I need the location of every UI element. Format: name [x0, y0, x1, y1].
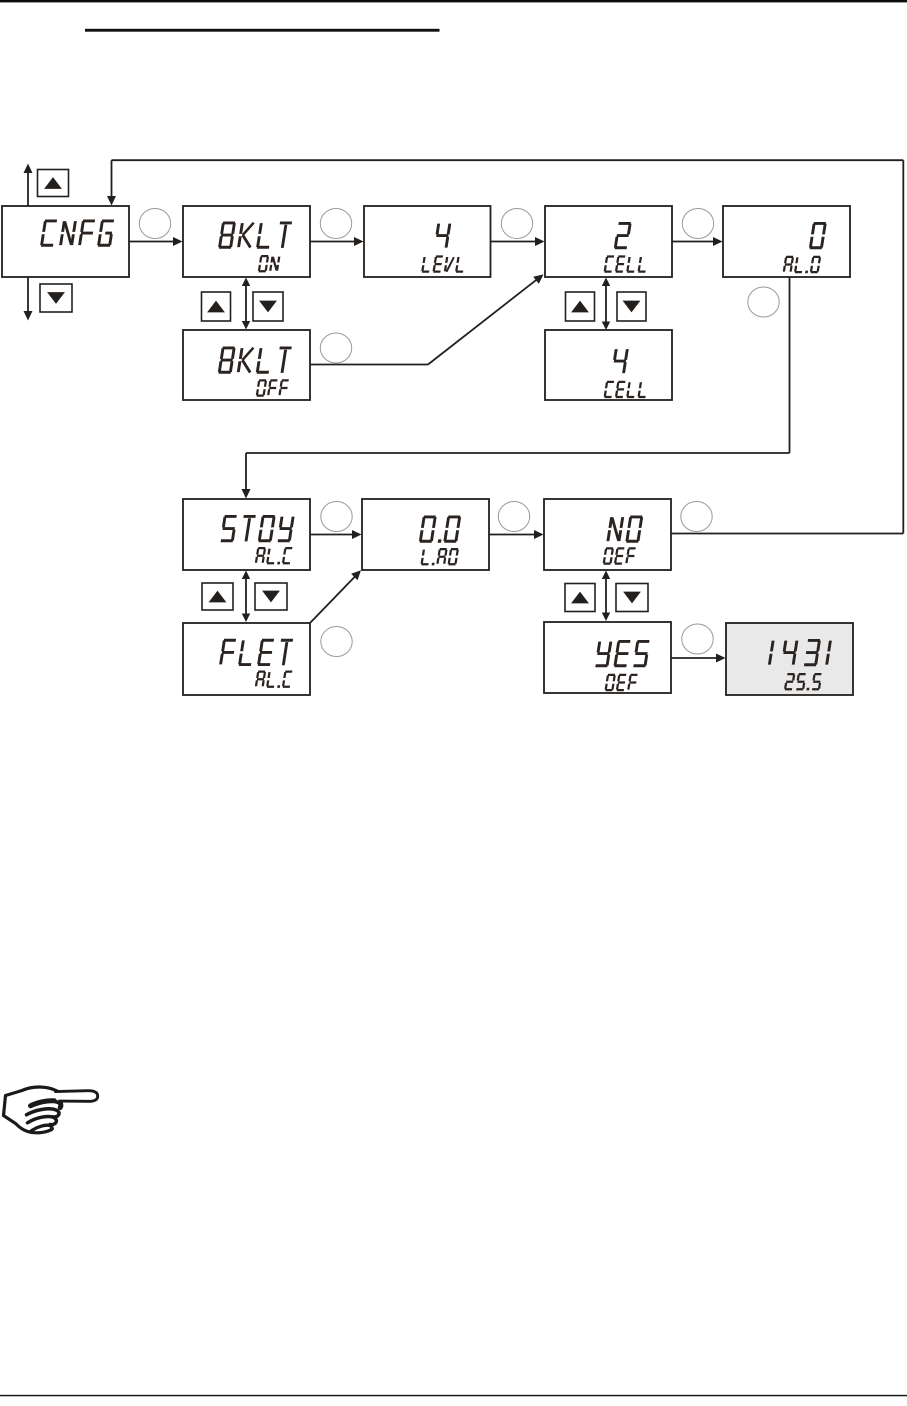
wire: main loop top horizontal [112, 159, 904, 161]
lcd text DEF (yes) [606, 675, 638, 690]
key circle FLET [321, 627, 352, 657]
wire: AL.D down vertical [789, 277, 791, 453]
key circle below AL.D [748, 287, 779, 317]
arrow: L.AD to NO [489, 534, 536, 536]
key circle CELL-ALD [682, 209, 713, 239]
display box NO DEF [544, 499, 671, 570]
lcd text CELL (4) [605, 382, 648, 397]
lcd text OFF [257, 380, 289, 395]
display box BKLT ON [183, 206, 310, 277]
key circle LAD-NO [498, 502, 529, 532]
arrow: loop into CNFG top [111, 160, 113, 198]
display box YES DEF [544, 622, 671, 693]
lcd text AL.D [784, 257, 821, 273]
lcd text NO [608, 517, 642, 541]
wire: NO box exit to right vertical [671, 533, 903, 535]
display box 2 CELL [545, 206, 672, 277]
lcd text BKLT (off) [219, 348, 292, 373]
page bottom border line [0, 1395, 907, 1397]
display box 0.0 L.AD [362, 499, 489, 570]
display box 4 LEVL [364, 206, 491, 277]
lcd text 0 (al.d) [810, 223, 826, 247]
arrow: CNFG box down-exit [27, 277, 29, 312]
lcd text DEF (no) [604, 548, 636, 563]
lcd text 1431 [769, 640, 830, 664]
arrow: CNFG box up-exit [27, 172, 29, 206]
key circle YES [682, 624, 713, 654]
lcd text CNFG [41, 221, 114, 245]
lcd text BKLT (on) [219, 223, 292, 248]
BKLT up key button [202, 292, 231, 321]
page top border line [0, 0, 907, 2]
double arrow: NO pair [605, 577, 607, 615]
STDY down key button [255, 583, 287, 610]
wire: horizontal to STDY column [246, 452, 790, 454]
display box BKLT OFF [183, 330, 310, 400]
display box FLET AL.C [183, 623, 310, 695]
lcd text 2 [615, 223, 631, 247]
double arrow: CELL pair [605, 284, 607, 324]
lcd text CELL (2) [605, 257, 648, 272]
NO up key button [565, 584, 595, 612]
display box 1431 25.5 [726, 623, 853, 695]
lcd text AL.C (stdy) [256, 548, 293, 564]
key circle STDY [321, 502, 352, 532]
arrow: BKLT to LEVL [310, 241, 356, 243]
key circle CNFG-BKLT [139, 209, 170, 239]
lcd text 25.5 [785, 674, 822, 690]
arrow: diagonal up to CELL box corner [428, 278, 539, 364]
key circle BKLT-LEVL [320, 209, 351, 239]
BKLT down key button [253, 292, 283, 321]
key circle NO exit [681, 502, 712, 532]
lcd text FLET [220, 640, 293, 665]
lcd text 4 (levl) [435, 224, 451, 248]
display box CNFG [2, 206, 129, 277]
key circle BKLT OFF [320, 333, 351, 363]
lcd text 4 (cell) [612, 349, 628, 373]
CNFG up key button [38, 170, 69, 197]
display box 0 AL.D [723, 206, 850, 277]
wire: main loop right vertical [902, 160, 904, 533]
arrow: YES to 1431 [671, 657, 718, 659]
double arrow: BKLT pair [245, 284, 247, 323]
note manicule pointing hand [4, 1087, 98, 1133]
lcd text STDY [221, 516, 294, 541]
lcd text AL.C (flet) [256, 672, 293, 688]
CNFG down key button [40, 284, 72, 312]
CELL up key button [566, 292, 595, 321]
lcd text 0.0 [420, 517, 460, 543]
double arrow: STDY pair [245, 577, 247, 616]
title underline rule [85, 29, 440, 32]
NO down key button [616, 584, 648, 612]
display box 4 CELL [545, 330, 672, 400]
arrow: FLET diagonal up to L.AD corner [311, 577, 356, 623]
arrow: CELL to AL.D [672, 241, 715, 243]
wire: BKLT OFF exit horizontal [310, 364, 428, 366]
arrow: down into STDY [245, 453, 247, 491]
STDY up key button [202, 583, 233, 610]
arrow: LEVL to CELL [491, 241, 538, 243]
lcd text LEVL [422, 257, 465, 272]
lcd text L.AD [421, 549, 458, 565]
lcd text YES [596, 641, 650, 665]
CELL down key button [617, 292, 646, 321]
arrow: CNFG to BKLT [129, 241, 175, 243]
arrow: STDY to L.AD [310, 534, 354, 536]
display box STDY AL.C [183, 499, 310, 570]
lcd text ON [259, 256, 280, 271]
key circle LEVL-CELL [501, 209, 532, 239]
